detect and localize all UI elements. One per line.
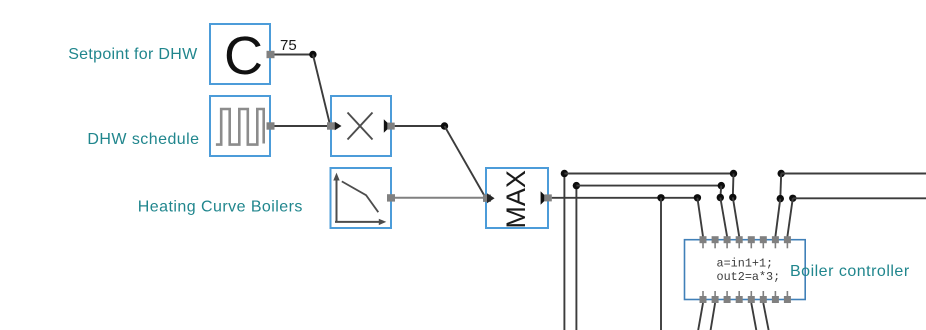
node corner top wire 1 right	[730, 170, 737, 177]
product output port	[387, 123, 394, 130]
wire heating curve to MAX (gray)	[395, 197, 483, 199]
wire vertical drop from MAX wire	[660, 198, 662, 330]
heating curve output port	[387, 194, 395, 201]
node junction MAX wire branch	[657, 194, 664, 201]
MAX output port	[544, 194, 552, 201]
wire from boiler bottom port 5	[751, 303, 756, 330]
node bend above boiler port 4	[729, 194, 736, 201]
boiler bottom port 8	[784, 291, 791, 303]
wire C output horizontal	[275, 54, 313, 56]
wire vertical riser 2 (left)	[575, 186, 577, 330]
wire diagonal to boiler port 8	[787, 198, 792, 236]
node corner riser 2	[573, 182, 580, 189]
product output arrowhead	[384, 119, 391, 133]
wire vertical stub right 1	[779, 174, 782, 199]
node corner right wire 1	[778, 170, 785, 177]
wire product diagonal to MAX input	[445, 126, 486, 198]
boiler top port 2	[712, 236, 719, 248]
node bend above boiler port 7	[777, 195, 784, 202]
svg-text:Setpoint for DHW: Setpoint for DHW	[68, 46, 198, 63]
wire from boiler bottom port 6	[763, 303, 768, 330]
node corner riser 1	[561, 170, 568, 177]
boiler controller block	[685, 240, 806, 300]
wire vertical stub to lower node	[732, 174, 735, 198]
boiler bottom port 6	[760, 291, 767, 303]
MAX block	[486, 168, 548, 229]
boiler bottom port 1	[700, 291, 707, 303]
product block (multiply)	[331, 96, 391, 156]
svg-text:a=in1+1;: a=in1+1;	[717, 257, 774, 271]
boiler bottom port 7	[772, 291, 779, 303]
svg-text:75: 75	[280, 37, 297, 54]
wire diagonal to boiler port 4	[733, 197, 739, 236]
product input port	[327, 122, 335, 129]
wire top horizontal 2	[576, 185, 721, 187]
wire from boiler bottom port 1	[698, 303, 703, 330]
boiler top port 6	[760, 236, 767, 248]
boiler top port 5	[748, 236, 755, 248]
boiler bottom port 4	[736, 291, 743, 303]
wire right horizontal 2	[793, 197, 926, 199]
boiler bottom port 2	[712, 291, 719, 303]
constant block C (Setpoint for DHW)	[210, 24, 270, 86]
wire vertical riser 1 (left)	[563, 174, 565, 330]
node end of MAX wire	[694, 194, 701, 201]
wire product output horizontal	[395, 125, 445, 127]
wire diagonal to boiler port 7	[775, 199, 780, 237]
wire right horizontal 1	[781, 173, 926, 175]
wire pulse to product	[275, 125, 328, 127]
node corner top wire 2 right	[718, 182, 725, 189]
svg-text:MAX: MAX	[501, 170, 531, 229]
MAX input arrowhead	[487, 193, 495, 203]
wire diagonal to boiler port 3	[720, 198, 727, 237]
svg-text:Heating Curve Boilers: Heating Curve Boilers	[138, 199, 303, 216]
svg-text:out2=a*3;: out2=a*3;	[717, 270, 781, 284]
constant block C output port	[267, 51, 275, 58]
svg-text:C: C	[224, 26, 263, 86]
boiler bottom port 5	[748, 291, 755, 303]
MAX output arrowhead	[541, 191, 548, 205]
pulse source block (DHW schedule)	[210, 96, 270, 156]
pulse block output port	[267, 122, 275, 129]
wire vertical stub to lower node 2	[720, 186, 721, 198]
svg-text:Boiler controller: Boiler controller	[790, 263, 910, 280]
node corner right wire 2	[789, 195, 796, 202]
boiler top port 3	[724, 236, 731, 248]
boiler top port 7	[772, 236, 779, 248]
node junction on C wire	[309, 51, 316, 58]
wire diagonal to boiler port 1	[697, 198, 703, 237]
product input arrowhead	[335, 122, 342, 131]
node junction on product wire	[441, 122, 448, 129]
wire from boiler bottom port 2	[711, 303, 716, 330]
MAX input port	[483, 195, 491, 202]
boiler top port 1	[700, 236, 707, 248]
node bend above boiler port 3	[717, 194, 724, 201]
boiler top port 8	[784, 236, 791, 248]
wire top horizontal 1	[564, 173, 733, 175]
wire C diagonal to product input	[313, 55, 330, 124]
boiler top port 4	[736, 236, 743, 248]
heating curve block	[331, 168, 392, 228]
boiler bottom port 3	[724, 291, 731, 303]
wire MAX output horizontal	[552, 197, 698, 199]
svg-text:DHW schedule: DHW schedule	[87, 131, 199, 148]
